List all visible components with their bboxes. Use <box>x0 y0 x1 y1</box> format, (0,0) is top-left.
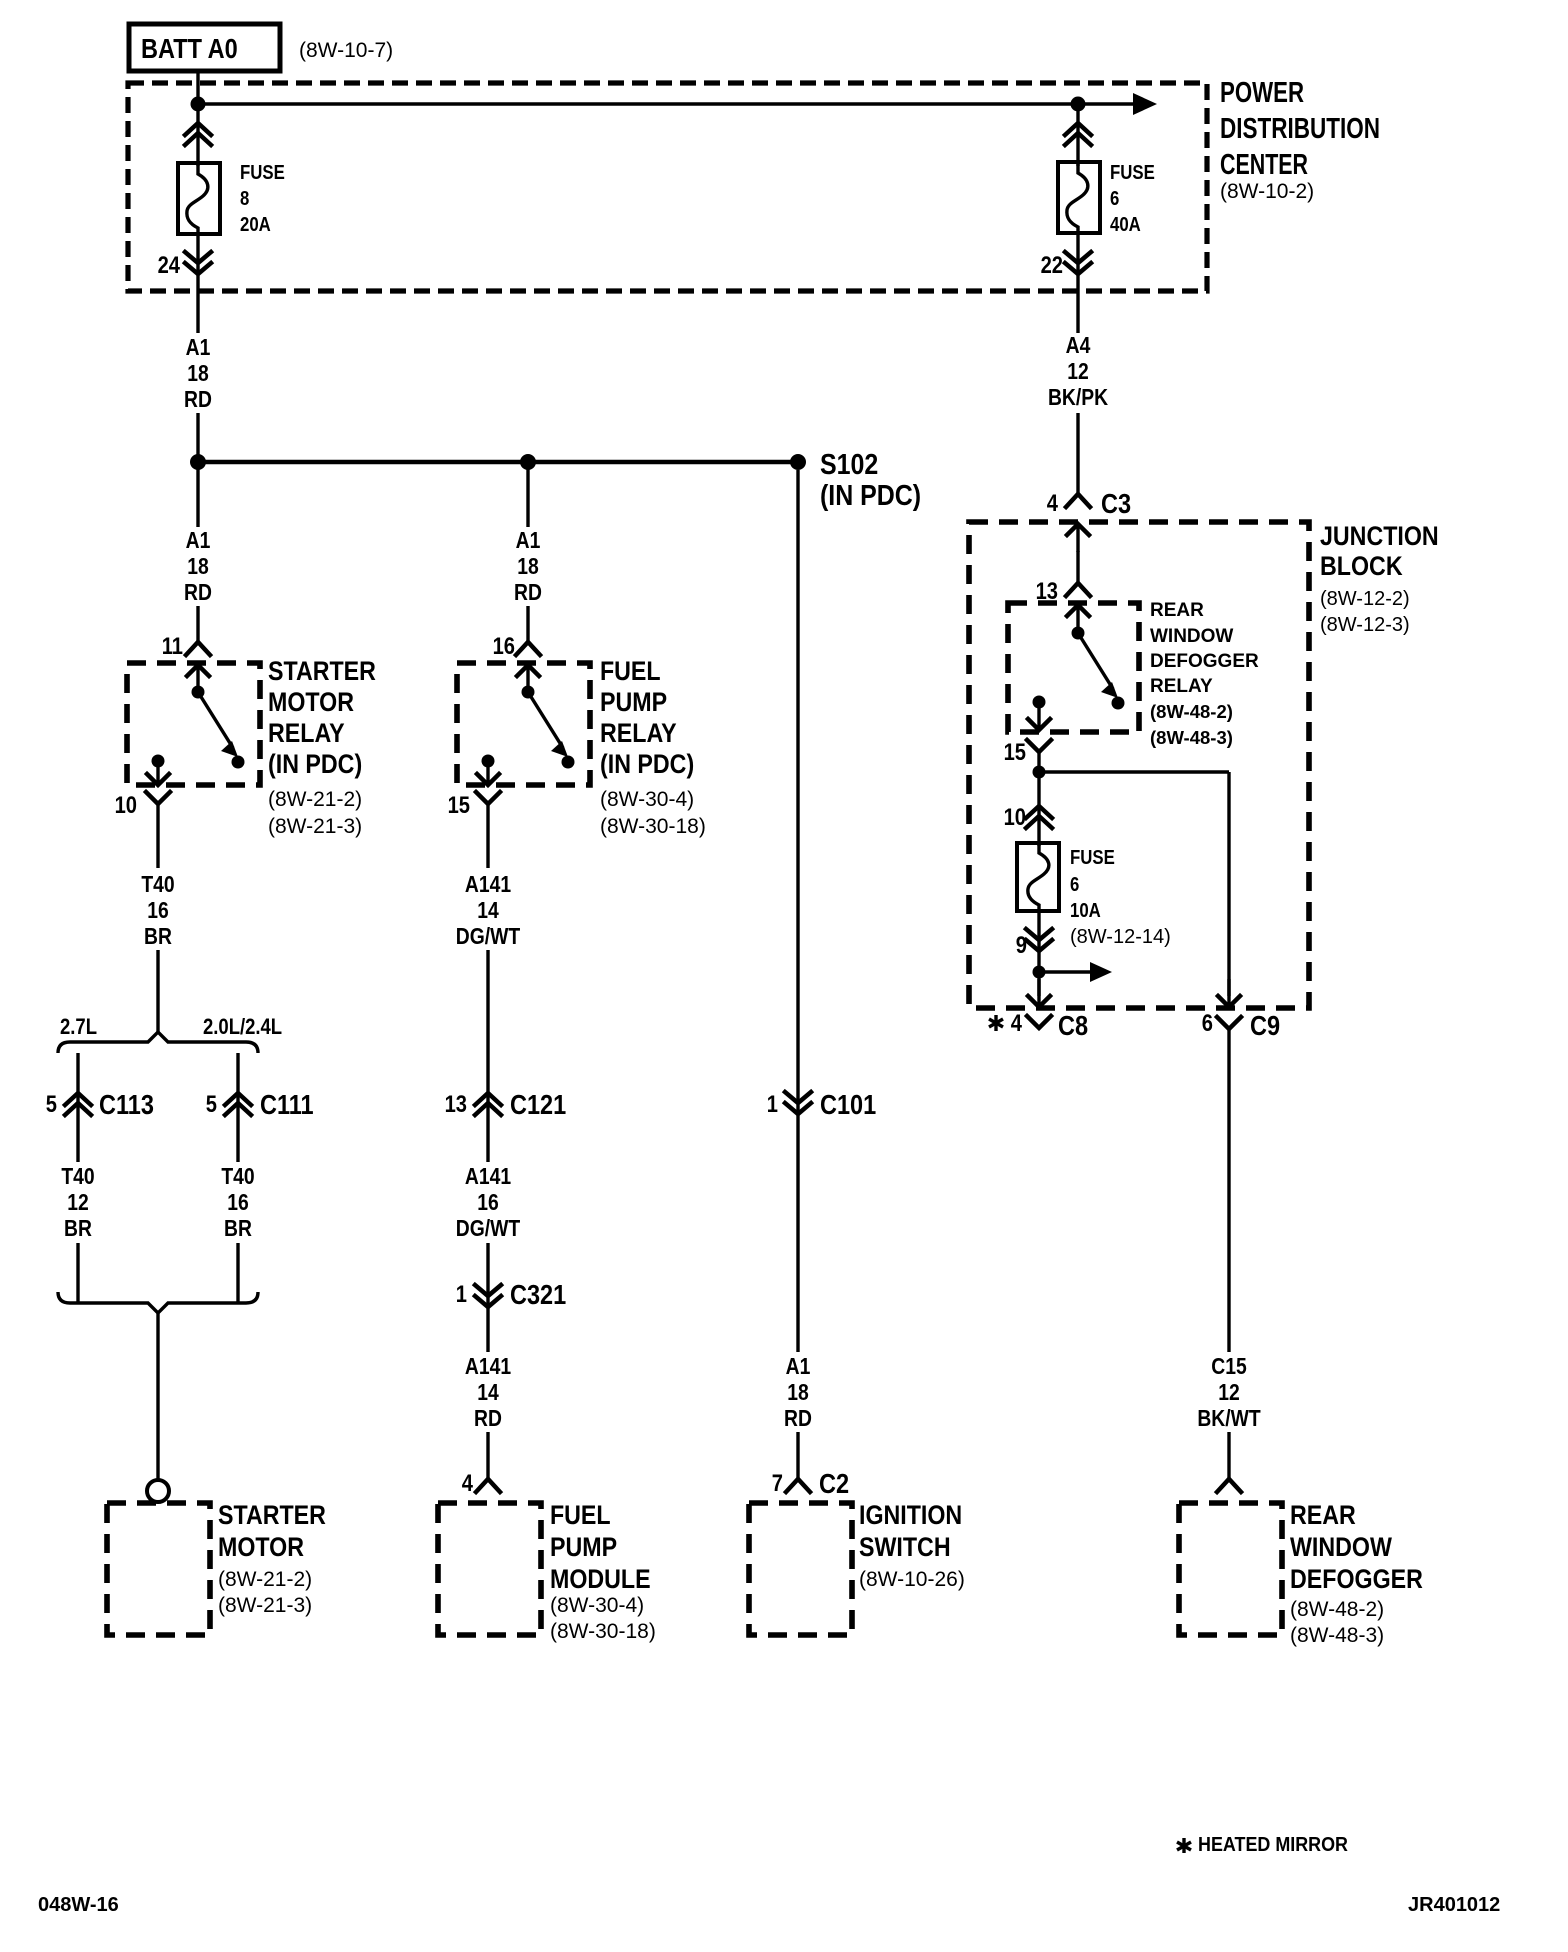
svg-text:16: 16 <box>477 1189 499 1215</box>
node S102 <box>790 454 806 470</box>
svg-text:C15: C15 <box>1211 1353 1247 1379</box>
svg-text:C121: C121 <box>510 1089 566 1120</box>
relay output pin arrow down <box>1028 702 1050 730</box>
svg-text:DEFOGGER: DEFOGGER <box>1150 651 1259 672</box>
svg-text:(IN PDC): (IN PDC) <box>268 749 362 779</box>
fuse F6 10A <box>1017 843 1059 911</box>
splice S102 bus <box>198 460 798 465</box>
starter motor relay dashed box <box>127 663 260 785</box>
svg-text:10: 10 <box>115 792 137 819</box>
relay output contact dot <box>482 755 495 768</box>
relay thrown contact dot <box>1112 697 1125 710</box>
svg-text:JUNCTION: JUNCTION <box>1320 521 1439 551</box>
power distribution center dashed box <box>128 83 1207 291</box>
svg-text:16: 16 <box>147 897 169 923</box>
relay pivot dot <box>192 686 205 699</box>
svg-text:RD: RD <box>474 1405 502 1431</box>
svg-text:FUSE: FUSE <box>1070 847 1115 869</box>
rear window defogger relay dashed box <box>1008 603 1139 732</box>
svg-text:7: 7 <box>772 1470 783 1497</box>
connector caret pin 4 C3 <box>1066 494 1090 507</box>
svg-text:12: 12 <box>1218 1379 1240 1405</box>
svg-text:C111: C111 <box>260 1089 314 1120</box>
connector chevrons pin 9 <box>1026 929 1052 951</box>
svg-text:FUSE: FUSE <box>240 162 285 184</box>
starter motor dashed box <box>107 1503 210 1635</box>
svg-text:16: 16 <box>493 633 515 660</box>
svg-text:22: 22 <box>1041 252 1063 279</box>
wire: down to splice <box>196 413 199 462</box>
svg-text:POWER: POWER <box>1220 77 1304 109</box>
connector chevrons below fuse 8 <box>185 252 211 274</box>
svg-text:REAR: REAR <box>1290 1500 1356 1530</box>
svg-text:BK/WT: BK/WT <box>1197 1405 1260 1431</box>
svg-text:(8W-30-18): (8W-30-18) <box>550 1620 656 1643</box>
svg-text:18: 18 <box>187 360 209 386</box>
wire into fuse 6 <box>1076 104 1079 166</box>
bottom brace <box>58 1292 258 1313</box>
svg-text:RD: RD <box>184 579 212 605</box>
svg-text:SWITCH: SWITCH <box>859 1532 951 1562</box>
svg-text:PUMP: PUMP <box>600 687 667 717</box>
relay output pin arrow down <box>147 757 169 785</box>
fuse F6 40A <box>1058 162 1100 233</box>
wire: S102 to fuel pump relay <box>526 462 529 527</box>
svg-text:BK/PK: BK/PK <box>1048 384 1108 410</box>
node: bus left junction <box>191 97 206 112</box>
svg-text:18: 18 <box>187 553 209 579</box>
svg-text:FUSE: FUSE <box>1110 162 1155 184</box>
svg-text:(8W-48-3): (8W-48-3) <box>1150 727 1233 748</box>
wire: node down to fuse 6 <box>1037 772 1040 846</box>
svg-text:DG/WT: DG/WT <box>456 923 520 949</box>
svg-text:A1: A1 <box>186 527 211 553</box>
svg-text:13: 13 <box>445 1091 467 1118</box>
wire: fuse 8 down through PDC edge <box>196 234 199 333</box>
fuel pump relay dashed box <box>457 663 590 785</box>
svg-text:4: 4 <box>1011 1010 1023 1037</box>
wire: brace to starter motor <box>156 1313 159 1480</box>
svg-text:MOTOR: MOTOR <box>268 687 354 717</box>
connector caret pin 10 <box>146 792 170 804</box>
relay output contact dot <box>1033 696 1046 709</box>
svg-text:8: 8 <box>240 188 249 210</box>
svg-text:(8W-21-2): (8W-21-2) <box>268 788 362 811</box>
wire down C9 leg <box>1227 772 1230 996</box>
svg-text:(8W-21-2): (8W-21-2) <box>218 1568 312 1591</box>
connector caret pin 4 <box>476 1479 500 1492</box>
node left <box>190 454 206 470</box>
ring terminal <box>147 1480 169 1502</box>
wire: fuse to node 2 <box>1037 911 1040 996</box>
junction block pin arrow in <box>1067 524 1089 552</box>
fuel pump module dashed box <box>438 1503 541 1635</box>
relay pin arrow in <box>187 665 209 693</box>
svg-text:(IN PDC): (IN PDC) <box>820 480 921 512</box>
relay output pin arrow down <box>477 757 499 785</box>
svg-text:C2: C2 <box>819 1468 849 1499</box>
wire: fuse 6 down through PDC edge <box>1076 233 1079 333</box>
wire 2.7L branch <box>76 1053 79 1162</box>
wire across to C9 leg <box>1039 770 1229 773</box>
fuse F8 <box>178 163 220 234</box>
svg-text:DEFOGGER: DEFOGGER <box>1290 1564 1423 1594</box>
ignition switch dashed box <box>749 1503 852 1635</box>
svg-text:(8W-10-7): (8W-10-7) <box>299 39 393 62</box>
svg-text:(IN PDC): (IN PDC) <box>600 749 694 779</box>
relay output contact dot <box>152 755 165 768</box>
svg-text:6: 6 <box>1202 1010 1213 1037</box>
svg-text:4: 4 <box>1047 490 1059 517</box>
svg-text:(8W-10-2): (8W-10-2) <box>1220 180 1314 203</box>
svg-text:A141: A141 <box>465 1353 511 1379</box>
svg-text:T40: T40 <box>141 871 174 897</box>
svg-text:RELAY: RELAY <box>600 718 677 748</box>
wire: down to junction block <box>1076 413 1079 494</box>
svg-text:5: 5 <box>206 1091 217 1118</box>
node 2 in junction block <box>1033 966 1046 979</box>
svg-text:A141: A141 <box>465 1163 511 1189</box>
footnote heated mirror <box>1177 1838 1191 1853</box>
svg-text:BR: BR <box>144 923 172 949</box>
pin arrow out C8 <box>1028 979 1050 1007</box>
connector caret at defogger <box>1217 1479 1241 1492</box>
svg-text:2.7L: 2.7L <box>60 1014 97 1039</box>
svg-text:048W-16: 048W-16 <box>38 1894 119 1916</box>
wire: S102 to ignition switch <box>796 470 799 1352</box>
svg-text:WINDOW: WINDOW <box>1150 626 1233 647</box>
svg-text:STARTER: STARTER <box>268 656 376 686</box>
svg-text:18: 18 <box>787 1379 809 1405</box>
relay thrown contact dot <box>562 756 575 769</box>
svg-text:2.0L/2.4L: 2.0L/2.4L <box>203 1014 282 1039</box>
svg-text:A141: A141 <box>465 871 511 897</box>
svg-text:(8W-21-3): (8W-21-3) <box>268 815 362 838</box>
svg-text:DISTRIBUTION: DISTRIBUTION <box>1220 113 1380 145</box>
svg-text:S102: S102 <box>820 449 878 481</box>
wire: BATT A0 down to bus <box>196 71 199 104</box>
node: bus right junction <box>1071 97 1086 112</box>
svg-text:(8W-30-18): (8W-30-18) <box>600 815 706 838</box>
svg-text:RD: RD <box>184 386 212 412</box>
battery feed box BATT A0 <box>129 24 280 71</box>
pin arrow out C9 <box>1218 979 1240 1007</box>
svg-text:C8: C8 <box>1058 1010 1088 1041</box>
svg-text:18: 18 <box>517 553 539 579</box>
connector caret C9 <box>1217 1017 1241 1029</box>
svg-text:C101: C101 <box>820 1089 876 1120</box>
connector caret pin 11 <box>186 642 210 655</box>
relay blade <box>198 692 233 748</box>
svg-text:15: 15 <box>1004 739 1026 766</box>
svg-text:14: 14 <box>477 1379 499 1405</box>
wire: S102 to starter motor relay <box>196 462 199 527</box>
svg-text:(8W-10-26): (8W-10-26) <box>859 1568 965 1591</box>
connector chevrons C101 <box>785 1092 811 1114</box>
svg-text:12: 12 <box>67 1189 89 1215</box>
svg-text:C321: C321 <box>510 1279 566 1310</box>
relay pivot dot <box>1072 627 1085 640</box>
svg-text:12: 12 <box>1067 358 1089 384</box>
svg-text:T40: T40 <box>61 1163 94 1189</box>
svg-text:BATT A0: BATT A0 <box>141 33 238 64</box>
svg-text:4: 4 <box>462 1470 474 1497</box>
svg-text:PUMP: PUMP <box>550 1532 617 1562</box>
svg-text:FUEL: FUEL <box>550 1500 611 1530</box>
svg-text:20A: 20A <box>240 214 271 236</box>
wire to node <box>1037 752 1040 772</box>
svg-text:10: 10 <box>1004 804 1026 831</box>
node middle <box>520 454 536 470</box>
svg-text:(8W-12-3): (8W-12-3) <box>1320 614 1410 636</box>
svg-text:HEATED MIRROR: HEATED MIRROR <box>1198 1834 1348 1856</box>
svg-text:6: 6 <box>1110 188 1119 210</box>
svg-text:BR: BR <box>64 1215 92 1241</box>
svg-text:(8W-12-14): (8W-12-14) <box>1070 926 1171 948</box>
svg-text:11: 11 <box>162 633 183 660</box>
svg-text:(8W-30-4): (8W-30-4) <box>600 788 694 811</box>
connector chevrons above fuse 6 PDC <box>1065 123 1091 145</box>
svg-text:40A: 40A <box>1110 214 1141 236</box>
svg-text:C9: C9 <box>1250 1010 1280 1041</box>
wire: relay to branch brace <box>156 804 159 868</box>
node in junction block <box>1033 766 1046 779</box>
junction block dashed box <box>969 522 1309 1008</box>
svg-text:(8W-48-2): (8W-48-2) <box>1150 701 1233 722</box>
svg-text:A1: A1 <box>516 527 541 553</box>
relay pivot dot <box>522 686 535 699</box>
heated mirror asterisk <box>989 1015 1003 1031</box>
connector caret pin 13 <box>1066 583 1090 596</box>
svg-text:BR: BR <box>224 1215 252 1241</box>
relay pin arrow in <box>1067 605 1089 633</box>
svg-text:REAR: REAR <box>1150 600 1204 621</box>
svg-text:(8W-48-3): (8W-48-3) <box>1290 1624 1384 1647</box>
svg-text:FUEL: FUEL <box>600 656 661 686</box>
svg-text:CENTER: CENTER <box>1220 149 1308 181</box>
connector chevrons pin 10 <box>1026 806 1052 828</box>
svg-text:A4: A4 <box>1066 332 1091 358</box>
svg-text:MOTOR: MOTOR <box>218 1532 304 1562</box>
top brace <box>58 1032 258 1053</box>
wire 2.0L/2.4L branch <box>236 1053 239 1162</box>
connector caret C8 <box>1027 1016 1051 1028</box>
wire: relay to C121 <box>486 804 489 868</box>
svg-text:MODULE: MODULE <box>550 1564 651 1594</box>
connector caret pin 15 <box>1027 740 1051 752</box>
connector chevrons C321 <box>475 1285 501 1307</box>
svg-text:A1: A1 <box>786 1353 811 1379</box>
svg-text:(8W-48-2): (8W-48-2) <box>1290 1598 1384 1621</box>
svg-text:RELAY: RELAY <box>268 718 345 748</box>
svg-text:(8W-12-2): (8W-12-2) <box>1320 588 1410 610</box>
connector chevrons C121 <box>475 1093 501 1115</box>
svg-text:14: 14 <box>477 897 499 923</box>
svg-text:24: 24 <box>158 252 181 279</box>
relay thrown contact dot <box>232 756 245 769</box>
svg-text:(8W-30-4): (8W-30-4) <box>550 1594 644 1617</box>
svg-text:IGNITION: IGNITION <box>859 1500 962 1530</box>
svg-text:16: 16 <box>227 1189 249 1215</box>
svg-text:6: 6 <box>1070 874 1079 896</box>
connector caret pin 15 <box>476 792 500 804</box>
relay blade <box>528 692 563 748</box>
svg-text:DG/WT: DG/WT <box>456 1215 520 1241</box>
wire to relay <box>1076 551 1079 583</box>
svg-text:RELAY: RELAY <box>1150 676 1213 697</box>
svg-text:C113: C113 <box>99 1089 154 1120</box>
svg-text:1: 1 <box>767 1091 778 1118</box>
connector caret pin 7 <box>786 1479 810 1492</box>
wire: C9 to rear window defogger <box>1227 1029 1230 1352</box>
arrow at end of bus <box>1133 93 1157 115</box>
svg-text:RD: RD <box>784 1405 812 1431</box>
relay blade <box>1078 633 1113 689</box>
svg-text:WINDOW: WINDOW <box>1290 1532 1392 1562</box>
svg-text:15: 15 <box>448 792 470 819</box>
rear window defogger dashed box <box>1179 1503 1282 1635</box>
svg-text:JR401012: JR401012 <box>1408 1894 1500 1916</box>
svg-text:10A: 10A <box>1070 900 1101 922</box>
svg-text:1: 1 <box>456 1281 467 1308</box>
connector chevrons C113 <box>65 1093 91 1115</box>
svg-text:(8W-21-3): (8W-21-3) <box>218 1594 312 1617</box>
feed arrow to other circuits <box>1039 970 1090 973</box>
connector chevrons above fuse 8 <box>185 123 211 145</box>
svg-text:9: 9 <box>1016 932 1027 959</box>
relay pin arrow in <box>517 665 539 693</box>
wire into fuse 8 <box>196 104 199 166</box>
svg-text:RD: RD <box>514 579 542 605</box>
svg-text:STARTER: STARTER <box>218 1500 326 1530</box>
svg-text:A1: A1 <box>186 334 211 360</box>
connector chevrons below fuse 6 <box>1065 252 1091 274</box>
connector caret pin 16 <box>516 642 540 655</box>
svg-text:BLOCK: BLOCK <box>1320 551 1403 581</box>
svg-text:T40: T40 <box>221 1163 254 1189</box>
connector chevrons C111 <box>225 1093 251 1115</box>
wire: bus across PDC <box>198 102 1133 105</box>
svg-text:5: 5 <box>46 1091 57 1118</box>
svg-text:C3: C3 <box>1101 488 1131 519</box>
